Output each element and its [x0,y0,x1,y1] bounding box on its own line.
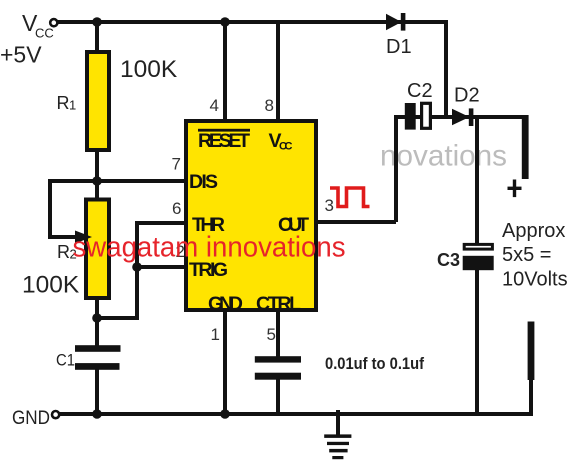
svg-text:Approx: Approx [502,220,565,242]
svg-text:10Volts: 10Volts [502,269,568,291]
svg-text:8: 8 [265,96,274,115]
svg-text:7: 7 [172,155,181,174]
svg-text:C1: C1 [56,351,75,370]
svg-text:GND: GND [208,293,243,315]
svg-text:D2: D2 [454,85,480,107]
svg-text:3: 3 [325,196,334,215]
svg-text:CC: CC [279,141,293,153]
svg-text:DIS: DIS [189,171,218,193]
svg-text:RESET: RESET [198,130,250,152]
svg-text:C3: C3 [437,250,460,270]
svg-text:CTRL: CTRL [256,293,301,315]
svg-text:100K: 100K [22,272,80,299]
svg-text:0.01uf to 0.1uf: 0.01uf to 0.1uf [325,355,424,373]
svg-text:C2: C2 [407,80,433,102]
svg-text:5x5 =: 5x5 = [502,244,551,266]
svg-text:100K: 100K [120,56,178,83]
svg-text:swagatam innovations: swagatam innovations [73,232,346,264]
svg-text:4: 4 [210,96,219,115]
svg-text:1: 1 [69,98,76,113]
svg-text:novations: novations [380,140,507,173]
svg-text:GND: GND [12,408,50,429]
svg-text:+5V: +5V [0,42,42,68]
svg-text:6: 6 [172,199,181,218]
svg-text:CC: CC [35,26,54,41]
svg-text:R: R [57,93,70,113]
svg-text:5: 5 [267,325,276,344]
svg-text:R: R [57,242,70,262]
svg-text:D1: D1 [386,36,412,58]
svg-text:1: 1 [211,325,220,344]
